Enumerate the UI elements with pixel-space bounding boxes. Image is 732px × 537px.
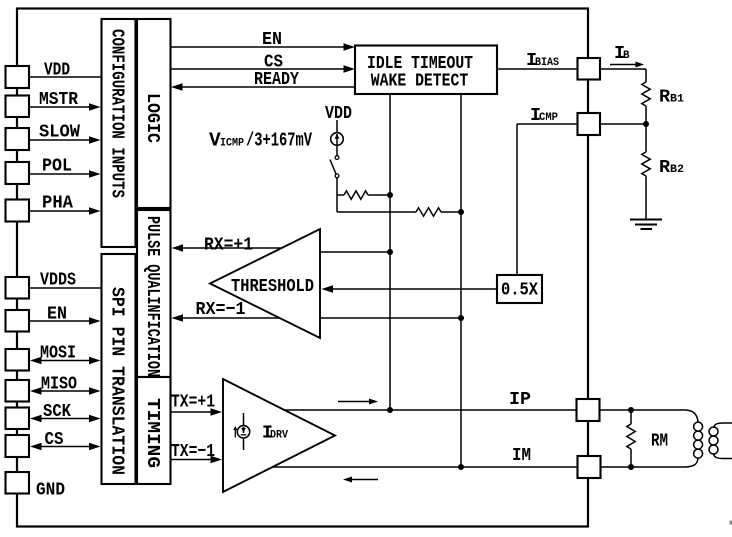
svg-text:POL: POL: [42, 156, 72, 177]
svg-text:RM: RM: [651, 431, 668, 452]
svg-text:MOSI: MOSI: [40, 343, 76, 364]
svg-text:RX=−1: RX=−1: [196, 299, 246, 320]
svg-text:GND: GND: [36, 480, 65, 501]
svg-text:CS: CS: [45, 429, 64, 450]
svg-text:MSTR: MSTR: [39, 89, 79, 110]
svg-text:TIMING: TIMING: [142, 398, 163, 468]
svg-text:IP: IP: [509, 389, 531, 410]
svg-text:CONFIGURATION INPUTS: CONFIGURATION INPUTS: [107, 29, 128, 198]
svg-text:VDD: VDD: [44, 60, 70, 81]
svg-text:SLOW: SLOW: [39, 122, 81, 143]
svg-text:RX=+1: RX=+1: [204, 235, 253, 256]
svg-text:LOGIC: LOGIC: [142, 93, 163, 143]
svg-text:0.5X: 0.5X: [501, 280, 539, 301]
svg-text:IBIAS: IBIAS: [526, 50, 559, 71]
svg-text:IM: IM: [512, 445, 531, 466]
svg-text:PHA: PHA: [42, 193, 74, 214]
svg-text:WAKE DETECT: WAKE DETECT: [371, 71, 469, 92]
svg-text:IB: IB: [614, 43, 630, 64]
svg-text:EN: EN: [262, 29, 282, 50]
svg-text:ICMP: ICMP: [530, 105, 558, 126]
svg-text:SCK: SCK: [43, 401, 72, 422]
svg-text:VICMP/3+167mV: VICMP/3+167mV: [209, 130, 312, 152]
svg-text:VDDS: VDDS: [40, 270, 76, 291]
svg-text:TX=−1: TX=−1: [171, 441, 215, 462]
svg-text:VDD: VDD: [325, 103, 352, 124]
svg-text:RB2: RB2: [659, 157, 684, 178]
svg-text:READY: READY: [254, 69, 300, 90]
svg-text:EN: EN: [47, 304, 67, 325]
svg-text:RB1: RB1: [659, 87, 684, 108]
svg-text:SPI PIN TRANSLATION: SPI PIN TRANSLATION: [107, 287, 128, 475]
svg-text:PULSE QUALINFICATION: PULSE QUALINFICATION: [142, 216, 163, 377]
svg-text:MISO: MISO: [41, 374, 77, 395]
svg-text:THRESHOLD: THRESHOLD: [231, 276, 314, 297]
svg-text:TX=+1: TX=+1: [171, 392, 215, 413]
